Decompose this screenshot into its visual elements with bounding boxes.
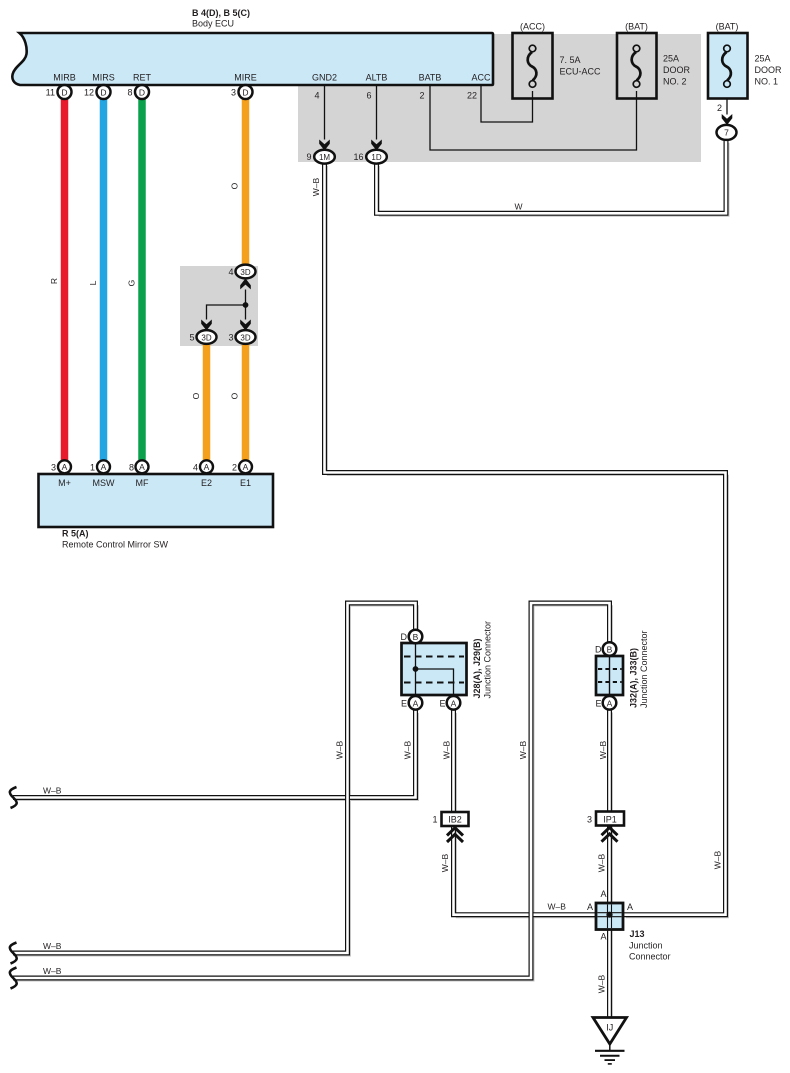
svg-text:O: O <box>230 392 240 399</box>
wire W-B connector 1M to J13 right (hollow) <box>325 163 726 915</box>
svg-text:9: 9 <box>306 152 311 162</box>
svg-text:16: 16 <box>353 152 363 162</box>
svg-text:7. 5A: 7. 5A <box>560 55 581 65</box>
svg-text:MF: MF <box>136 478 149 488</box>
svg-text:1M: 1M <box>319 153 330 162</box>
fuse DOOR NO.2 symbol <box>632 45 641 87</box>
arrow into connector 1D <box>371 140 382 151</box>
svg-text:J28(A), J29(B): J28(A), J29(B) <box>472 638 482 698</box>
svg-text:IJ: IJ <box>606 1023 613 1033</box>
svg-text:25A: 25A <box>663 54 679 64</box>
wire W connector 1D to connector 7 (hollow) <box>377 140 727 213</box>
svg-text:3: 3 <box>228 333 233 343</box>
svg-text:NO. 1: NO. 1 <box>755 77 779 87</box>
svg-text:GND2: GND2 <box>312 73 337 83</box>
svg-text:3D: 3D <box>240 333 250 342</box>
pin circle A 8 (MF) <box>136 460 149 473</box>
svg-text:Remote Control Mirror SW: Remote Control Mirror SW <box>62 540 169 550</box>
arrow down into connector 3D (5) <box>201 320 212 331</box>
svg-text:11: 11 <box>46 88 55 98</box>
svg-text:BATB: BATB <box>419 73 442 83</box>
svg-text:25A: 25A <box>755 54 771 64</box>
fuse DOOR NO.1 symbol <box>722 45 731 87</box>
svg-text:MIRB: MIRB <box>53 73 76 83</box>
svg-text:R: R <box>49 278 59 284</box>
svg-text:W–B: W–B <box>440 853 450 872</box>
svg-text:A: A <box>62 462 68 472</box>
chevrons below IP1 <box>602 828 618 842</box>
svg-text:W–B: W–B <box>311 177 321 196</box>
svg-text:W–B: W–B <box>403 740 413 759</box>
pin circle A 2 (E1) <box>239 460 252 473</box>
pin circle D 8 (RET) <box>135 85 149 99</box>
svg-text:IP1: IP1 <box>603 814 617 824</box>
svg-text:W–B: W–B <box>442 740 452 759</box>
svg-text:4: 4 <box>314 91 319 101</box>
svg-text:1: 1 <box>90 462 95 472</box>
svg-text:W–B: W–B <box>713 850 723 869</box>
wire shadows <box>16 143 729 1020</box>
pin circle A 1 (MSW) <box>97 460 110 473</box>
svg-text:4: 4 <box>228 267 233 277</box>
svg-text:E: E <box>595 699 601 709</box>
svg-text:M+: M+ <box>58 478 71 488</box>
wire GND2 pin 4 to connector 1M <box>324 85 326 140</box>
junction connector J28(A) J29(B) box <box>402 643 467 695</box>
svg-text:J13: J13 <box>630 929 645 939</box>
svg-text:Junction: Junction <box>629 941 663 951</box>
svg-text:Junction Connector: Junction Connector <box>639 630 649 708</box>
Remote Control Mirror SW block R5(A) <box>39 474 274 527</box>
svg-text:12: 12 <box>84 88 94 98</box>
svg-text:W–B: W–B <box>43 786 62 796</box>
svg-text:Body ECU: Body ECU <box>192 19 234 29</box>
wire L (blue) MIRS to MSW <box>100 99 108 461</box>
svg-text:E: E <box>401 699 407 709</box>
svg-text:A: A <box>600 889 606 899</box>
svg-text:8: 8 <box>129 462 134 472</box>
svg-text:A: A <box>413 698 419 708</box>
squiggle break symbol 3 <box>10 968 17 989</box>
svg-text:3: 3 <box>231 88 236 98</box>
svg-text:(BAT): (BAT) <box>625 22 648 32</box>
chevrons below IB2 <box>447 828 463 842</box>
svg-text:A: A <box>101 462 107 472</box>
svg-text:D: D <box>61 88 67 98</box>
svg-text:5: 5 <box>189 333 194 343</box>
svg-text:B 4(D), B 5(C): B 4(D), B 5(C) <box>192 8 250 18</box>
svg-text:B: B <box>413 632 419 642</box>
svg-text:A: A <box>204 462 210 472</box>
fuse ECU-ACC symbol <box>528 45 537 87</box>
svg-text:NO. 2: NO. 2 <box>663 77 687 87</box>
svg-text:D: D <box>100 88 106 98</box>
wire fuse DOOR NO.1 pin 2 to connector 7 <box>726 91 728 115</box>
svg-text:W–B: W–B <box>518 740 528 759</box>
svg-text:E1: E1 <box>240 478 251 488</box>
svg-text:W–B: W–B <box>335 740 345 759</box>
pin circle A 3 (M+) <box>58 460 71 473</box>
svg-text:W–B: W–B <box>548 902 567 912</box>
connector 1D <box>366 150 387 164</box>
wire W-B J32 pin A through IP1 and J13 to ground (hollow) <box>607 710 612 1018</box>
wire W-B J32 pin B loop to squiggle3 (hollow) <box>13 603 610 978</box>
wire ALTB pin 6 to connector 1D <box>376 85 378 140</box>
svg-text:IB2: IB2 <box>448 815 462 825</box>
fuse DOOR NO.1 box <box>708 33 748 99</box>
svg-text:A: A <box>627 902 633 912</box>
junction dot J13 <box>606 912 612 918</box>
svg-text:A: A <box>600 932 606 942</box>
pin circle A2 of J28 (E) <box>447 696 461 710</box>
svg-text:A: A <box>139 462 145 472</box>
arrow into connector 1M <box>319 140 330 151</box>
svg-text:22: 22 <box>467 91 477 101</box>
svg-text:W–B: W–B <box>43 941 62 951</box>
svg-text:(ACC): (ACC) <box>520 22 545 32</box>
junction dot at 3D branch <box>243 302 249 308</box>
svg-text:ACC: ACC <box>471 73 491 83</box>
svg-text:MIRS: MIRS <box>92 73 115 83</box>
junction connector J13 box <box>596 903 623 930</box>
squiggle break symbol 1 <box>10 787 17 808</box>
junction connector J32(A) J33(B) box <box>596 656 623 695</box>
svg-text:Connector: Connector <box>629 952 671 962</box>
svg-text:(BAT): (BAT) <box>716 22 739 32</box>
connector 3D pin 5 <box>197 330 217 344</box>
svg-text:B: B <box>607 645 613 655</box>
svg-text:D: D <box>595 645 602 655</box>
fuse ECU-ACC box <box>513 33 553 99</box>
svg-text:E: E <box>439 699 445 709</box>
svg-text:A: A <box>243 462 249 472</box>
relay block shading panel (top right) <box>298 34 701 162</box>
svg-text:RET: RET <box>133 73 152 83</box>
svg-text:ECU-ACC: ECU-ACC <box>560 67 602 77</box>
pin circle D 12 (MIRS) <box>97 85 111 99</box>
svg-text:2: 2 <box>419 91 424 101</box>
svg-text:2: 2 <box>717 103 722 113</box>
svg-text:D: D <box>139 88 145 98</box>
svg-text:3D: 3D <box>240 268 250 277</box>
svg-text:A: A <box>451 698 457 708</box>
svg-text:MIRE: MIRE <box>234 73 257 83</box>
pin circle B of J28 <box>409 630 423 644</box>
svg-text:2: 2 <box>232 462 237 472</box>
wire MIRE branch inside shaded box <box>207 290 246 320</box>
wire W-B J28 pin A2 through IB2 to J13 left (hollow) <box>454 710 610 915</box>
svg-text:3: 3 <box>51 462 56 472</box>
pin circle D 11 (MIRB) <box>58 85 72 99</box>
connector IB2 box <box>442 812 469 826</box>
svg-text:O: O <box>230 182 240 189</box>
svg-text:1D: 1D <box>371 153 381 162</box>
connector 3D pin 4 <box>236 265 256 279</box>
svg-text:D: D <box>401 632 408 642</box>
svg-text:W–B: W–B <box>43 966 62 976</box>
svg-text:MSW: MSW <box>93 478 116 488</box>
ground symbol IJ <box>593 1018 627 1064</box>
wire W-B squiggle1 to J28 pin A (hollow) <box>13 710 416 798</box>
arrow into connector 7 <box>722 114 733 125</box>
pin circle B of J32 <box>603 642 617 656</box>
svg-text:1: 1 <box>432 815 437 825</box>
svg-text:W–B: W–B <box>598 740 608 759</box>
svg-text:DOOR: DOOR <box>755 65 783 75</box>
svg-text:D: D <box>242 88 248 98</box>
svg-text:W–B: W–B <box>597 853 607 872</box>
connector IP1 box <box>596 812 624 826</box>
pin circle D 3 (MIRE) <box>239 85 253 99</box>
connector 1M <box>314 150 335 164</box>
svg-text:L: L <box>88 280 98 285</box>
svg-text:3: 3 <box>587 814 592 824</box>
junction dot inside J28 <box>413 666 419 672</box>
svg-text:J32(A), J33(B): J32(A), J33(B) <box>629 648 639 708</box>
svg-text:3D: 3D <box>201 333 211 342</box>
wire W-B J28 pin B loop to squiggle2 (hollow) <box>13 603 416 953</box>
svg-text:ALTB: ALTB <box>366 73 388 83</box>
fuse DOOR NO.2 box <box>617 33 657 99</box>
wire O (orange) MIRE to 3D <box>242 99 250 265</box>
shading panel around 3D connectors <box>180 266 258 346</box>
wire BATB pin 2 to fuse DOOR NO.2 <box>430 85 637 150</box>
svg-text:O: O <box>191 392 201 399</box>
svg-text:E2: E2 <box>201 478 212 488</box>
pin circle A 4 (E2) <box>200 460 213 473</box>
wire ACC pin 22 to fuse ECU-ACC <box>481 85 533 122</box>
svg-text:DOOR: DOOR <box>663 65 691 75</box>
connector 7 <box>717 125 737 140</box>
pin circle A of J28 (E) <box>409 696 423 710</box>
svg-text:8: 8 <box>127 88 132 98</box>
arrow down into connector 3D (3) <box>240 320 251 331</box>
svg-text:4: 4 <box>193 462 198 472</box>
svg-text:7: 7 <box>724 128 729 138</box>
Body ECU block B4(D) B5(C) <box>12 33 493 85</box>
pin circle A of J32 (E) <box>603 696 617 710</box>
svg-text:R 5(A): R 5(A) <box>62 529 89 539</box>
svg-text:A: A <box>607 698 613 708</box>
wire R (red) MIRB to M+ <box>61 99 69 461</box>
svg-text:Junction Connector: Junction Connector <box>483 621 493 699</box>
wire G (green) RET to MF <box>138 99 146 461</box>
arrow up into connector 3D (4) <box>240 278 251 289</box>
connector 3D pin 3 <box>236 330 256 344</box>
squiggle break symbol 2 <box>10 943 17 964</box>
svg-text:A: A <box>587 902 593 912</box>
svg-text:G: G <box>127 280 137 287</box>
svg-text:6: 6 <box>366 91 371 101</box>
wire O (orange) 3D(5) to E2 <box>203 344 211 461</box>
svg-text:W: W <box>514 202 522 212</box>
svg-text:W–B: W–B <box>597 974 607 993</box>
wire O (orange) 3D(3) to E1 <box>242 344 250 461</box>
